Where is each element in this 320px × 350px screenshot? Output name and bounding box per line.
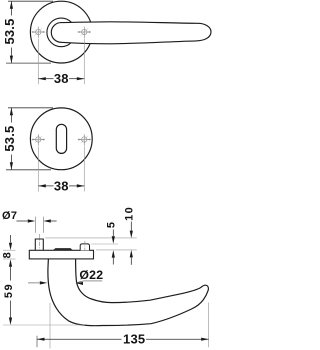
extension line bottom of 53.5 (escutcheon)	[6, 169, 51, 171]
spindle centerline	[38, 234, 40, 253]
svg-text:5: 5	[106, 220, 118, 228]
svg-text:38: 38	[54, 71, 69, 86]
extension line bottom of 53.5	[6, 62, 51, 64]
dimension line 135	[37, 338, 122, 340]
arrow left 38	[38, 77, 46, 80]
arrow Ø22 pointing right at neck left edge	[40, 281, 48, 284]
arrow Ø22 pointing left at neck right edge	[76, 282, 84, 285]
drop extension line left (38 dim, escutcheon)	[37, 147, 39, 192]
svg-text:53.5: 53.5	[2, 126, 17, 152]
svg-text:53.5: 53.5	[2, 18, 17, 44]
extension line Ø7 right	[42, 217, 44, 233]
svg-text:Ø7: Ø7	[2, 210, 17, 222]
rose plate (side view)	[29, 250, 93, 259]
drop extension line right (38 dim, top fig)	[83, 39, 85, 84]
arrow left 135	[37, 338, 45, 341]
rose circle	[30, 1, 92, 63]
screw head centerline	[84, 241, 86, 252]
extension line top of 53.5 (escutcheon)	[8, 107, 53, 109]
keyhole slot	[56, 124, 66, 153]
arrow right 135	[201, 338, 209, 341]
screw-hole mark left (rose)	[32, 27, 45, 39]
dim 10: upper line and arrow down	[130, 222, 132, 231]
dome bump on plate	[53, 248, 73, 250]
dimension line 53.5 vertical	[10, 1, 12, 15]
spindle (side view)	[35, 239, 43, 250]
escutcheon circle	[30, 108, 92, 170]
dim 135: right extension line	[207, 303, 209, 348]
arrow Ø7 pointing right	[28, 219, 36, 222]
arrow down 53.5 (escutcheon)	[10, 162, 13, 170]
arrow right 38	[77, 77, 85, 80]
extension line Ø7 left	[34, 217, 36, 233]
svg-text:59: 59	[3, 283, 15, 298]
svg-text:38: 38	[54, 178, 69, 193]
lever (grip) front view	[51, 22, 211, 44]
arrow right 38 (escutcheon)	[77, 184, 85, 187]
arrow Ø7 pointing left	[43, 219, 51, 222]
dim 5: upper line and arrow down	[112, 230, 114, 237]
arrow up 53.5	[10, 1, 13, 9]
arrow left 38 (escutcheon)	[38, 184, 46, 187]
svg-text:8: 8	[1, 251, 13, 259]
extension line y=249.7 (plate top, to the right)	[96, 249, 137, 251]
vertical construction line x=50	[49, 303, 51, 349]
dim 59: upper arrow up	[9, 259, 12, 267]
leader tail Ø7 right	[51, 220, 57, 222]
svg-text:10: 10	[124, 206, 136, 221]
dim 10: lower arrow up and tail	[130, 250, 133, 258]
screw-hole mark left (escutcheon)	[32, 134, 45, 146]
leader line Ø7 left	[17, 220, 28, 222]
svg-text:Ø22: Ø22	[79, 268, 103, 282]
screw-hole mark right (on lever)	[78, 27, 91, 39]
leader underline Ø22	[84, 280, 103, 282]
dim 59: lower line and arrow down	[10, 301, 12, 318]
collar circle (neck ring)	[47, 18, 76, 47]
extension line y=325 (grip bottom tangent)	[3, 324, 85, 326]
arrow up 53.5 (escutcheon)	[10, 108, 13, 116]
dimension line 53.5 vertical (escutcheon)	[10, 108, 12, 123]
dim 8: upper line and arrow down	[10, 235, 12, 243]
arrow down 53.5	[10, 56, 13, 64]
drop extension line left (38 dim, top fig)	[37, 39, 39, 84]
extension line top of 53.5	[8, 0, 53, 2]
dim 135: left extension line	[36, 336, 38, 347]
dim 8: extension lines (plate top/bottom)	[3, 249, 16, 251]
extension line y=244.0 (for dim 5, from screw head top)	[91, 243, 118, 245]
dimension line 38 (top fig)	[38, 78, 53, 80]
dimension line 38 (escutcheon)	[38, 185, 53, 187]
handle grip side view (S-curve)	[48, 258, 209, 326]
drop extension line right (38 dim, escutcheon)	[83, 147, 85, 192]
leader Ø22 left side	[28, 282, 40, 284]
dim 5: lower arrow up and tail	[112, 250, 115, 258]
screw-hole mark right (escutcheon)	[78, 134, 91, 146]
extension line y=237.9 (for dim 10, from spindle top)	[45, 237, 137, 239]
screw head box on plate	[80, 244, 89, 251]
svg-text:135: 135	[123, 331, 145, 346]
